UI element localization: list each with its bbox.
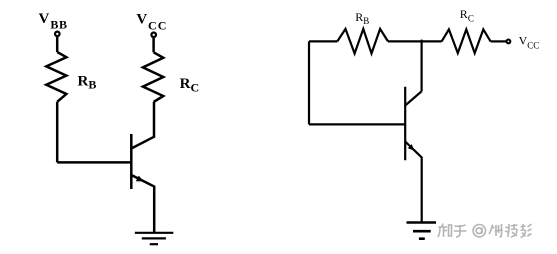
transistor Q2 emitter lead — [405, 142, 422, 222]
wire RC to VCC terminal — [152, 38, 155, 53]
wire RB to node — [388, 40, 442, 42]
wire RC to VCC terminal — [491, 40, 506, 42]
watermark glyph 微 — [489, 224, 503, 237]
transistor Q2 base bar — [404, 87, 406, 161]
transistor Q2 emitter arrow — [408, 144, 415, 151]
watermark glyph @ — [473, 225, 485, 237]
terminal VBB — [55, 32, 60, 37]
resistor RB (vertical) — [46, 52, 66, 102]
ground (left) — [135, 233, 173, 244]
watermark glyph 乎 — [454, 225, 467, 237]
watermark 知乎 @微波绘 — [438, 224, 532, 238]
terminal VCC — [151, 33, 156, 38]
resistor RC (vertical) — [143, 52, 163, 102]
resistor RB (horizontal) — [337, 29, 388, 54]
transistor Q1 emitter arrow — [136, 176, 144, 182]
transistor Q1 base bar — [130, 134, 133, 189]
wire left vertical (feedback) — [308, 41, 310, 124]
transistor Q1 emitter lead — [131, 175, 154, 232]
transistor Q1 collector lead — [131, 102, 154, 149]
watermark glyph 绘 — [521, 224, 532, 238]
terminal VCC (right) — [507, 40, 511, 44]
wire base horizontal (right) — [309, 123, 405, 125]
wire top left — [309, 40, 337, 42]
wire VBB terminal to RB — [56, 37, 59, 52]
watermark glyph 波 — [505, 224, 518, 237]
wire RB to base node — [56, 102, 59, 163]
transistor Q2 collector lead — [405, 91, 421, 105]
node collector drop wire — [421, 40, 423, 92]
wire base horizontal — [57, 161, 131, 164]
resistor RC (horizontal) — [442, 29, 491, 53]
ground (right) — [407, 223, 437, 239]
watermark glyph 知 — [438, 224, 452, 238]
